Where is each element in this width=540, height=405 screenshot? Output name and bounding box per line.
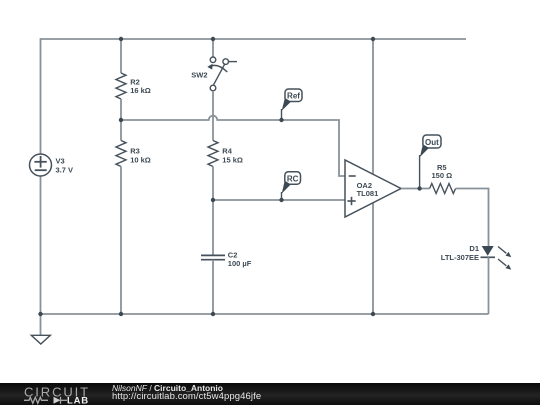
wire left branch V3 to bottom rail [40, 176, 42, 314]
wire mid horizontal with hop [121, 116, 345, 176]
wire R2 to R3 [120, 99, 122, 141]
svg-text:SW2: SW2 [191, 71, 207, 80]
voltage source V3 [30, 154, 74, 176]
wire R5 to LED [456, 189, 489, 247]
op-amp OA2 [345, 160, 401, 217]
svg-text:LTL-307EE: LTL-307EE [441, 253, 479, 262]
svg-text:Out: Out [425, 138, 439, 147]
svg-text:100 µF: 100 µF [228, 259, 252, 268]
wire plus input [213, 199, 345, 201]
svg-text:LAB: LAB [67, 395, 89, 405]
wire SW2 to R4 [212, 91, 214, 141]
wire C2 to bottom rail [212, 260, 214, 314]
node flag Out [420, 135, 441, 189]
resistor R4 [208, 141, 243, 167]
svg-text:15 kΩ: 15 kΩ [222, 155, 243, 164]
wire R2 branch top [120, 39, 122, 73]
wire R3 to bottom rail [120, 167, 122, 315]
wire op-amp output [401, 188, 430, 190]
switch SW2 [191, 57, 237, 91]
capacitor C2 [201, 251, 252, 269]
wire SW2 branch top [212, 39, 214, 57]
diode D1 LED [441, 244, 512, 270]
resistor R5 [430, 163, 456, 194]
resistor R3 [116, 141, 151, 167]
svg-text:D1: D1 [469, 244, 479, 253]
wire bottom rail [41, 313, 489, 315]
svg-text:V3: V3 [56, 157, 65, 166]
svg-text:R2: R2 [130, 78, 140, 87]
wire supply vertical [372, 39, 374, 314]
footer bar [0, 383, 540, 405]
svg-text:150 Ω: 150 Ω [431, 171, 452, 180]
wire R4 to C2 [212, 167, 214, 256]
svg-text:Ref: Ref [287, 92, 300, 101]
svg-text:RC: RC [287, 174, 299, 183]
ground [31, 314, 50, 344]
CircuitLab logo [0, 383, 100, 405]
svg-text:10 kΩ: 10 kΩ [130, 155, 151, 164]
svg-text:TL081: TL081 [357, 189, 379, 198]
svg-text:3.7 V: 3.7 V [56, 165, 74, 174]
resistor R2 [116, 73, 151, 99]
wire top rail [41, 39, 467, 154]
node flag Ref [282, 89, 303, 120]
svg-text:16 kΩ: 16 kΩ [130, 86, 151, 95]
node flag RC [282, 172, 301, 200]
wire LED to bottom rail [488, 257, 490, 314]
